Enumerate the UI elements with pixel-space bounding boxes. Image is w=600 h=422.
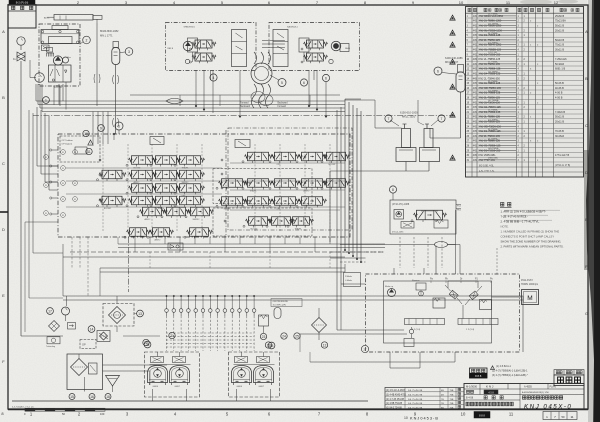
svg-text:75B: 75B — [450, 399, 454, 401]
check valve CV7 — [209, 309, 213, 313]
cylinder feed lines — [405, 162, 407, 172]
svg-text:KNJ 2L-75846-350: KNJ 2L-75846-350 — [479, 76, 501, 80]
svg-text:GM07: GM07 — [259, 386, 265, 388]
swing motor center lines — [447, 281, 449, 288]
gauge label circle 17 — [47, 308, 54, 315]
svg-text:70x11 B: 70x11 B — [555, 44, 564, 47]
return header pipes — [118, 243, 385, 245]
pressure note box — [271, 299, 302, 307]
approval table — [8, 5, 36, 28]
company name glyph row — [466, 402, 469, 406]
svg-text:A 4555/5B04555/18(1) 1/50: A 4555/5B04555/18(1) 1/50 — [522, 391, 550, 394]
svg-text:BOOM2: BOOM2 — [134, 167, 141, 169]
swing crossover relief B — [469, 291, 478, 300]
travel motor cluster 1 box — [145, 352, 200, 397]
scan smudges top edge — [520, 0, 552, 5]
check valve CV9 — [223, 309, 227, 313]
travel cluster labels — [144, 341, 151, 348]
accumulator A2 — [456, 72, 465, 92]
svg-text:PA5 B: PA5 B — [168, 47, 174, 50]
label circle 8 — [389, 186, 396, 193]
left standpipes — [36, 107, 38, 166]
svg-text:5: 5 — [281, 81, 283, 85]
spool valve V25 — [302, 179, 323, 188]
svg-text:D: D — [585, 170, 588, 175]
svg-text:GM06: GM06 — [237, 386, 243, 388]
svg-text:A: A — [2, 29, 5, 34]
svg-text:7707-131: 7707-131 — [488, 52, 498, 54]
svg-text:75x21 BA: 75x21 BA — [555, 20, 566, 23]
svg-text:25: 25 — [295, 334, 299, 338]
svg-text:4511 ASSY: 4511 ASSY — [521, 279, 533, 282]
travel motor cluster 2 box — [229, 352, 280, 397]
svg-text:OP Digtval: OP Digtval — [62, 143, 73, 146]
check valve CV10 — [230, 309, 234, 313]
spool valve V1 — [132, 156, 153, 165]
pilot pump unit 4 gear pump — [183, 41, 193, 51]
spool valve V12 — [132, 196, 153, 205]
bank label circle 6 — [115, 122, 123, 130]
spool valve V34 — [130, 228, 147, 237]
swing input bus — [330, 251, 384, 253]
svg-text:E: E — [2, 293, 5, 298]
svg-text:Turbochag: Turbochag — [46, 345, 55, 348]
swing port blocks — [405, 319, 445, 325]
spool valve V9 — [180, 184, 201, 193]
ellipse connector line — [448, 244, 456, 246]
spool valve V31 — [249, 217, 268, 226]
pilot filter — [42, 45, 50, 51]
svg-text:C: C — [2, 161, 5, 166]
svg-text:CONNECTS E POINT SHCT LAMP CAL: CONNECTS E POINT SHCT LAMP CALLSY — [501, 235, 555, 239]
svg-text:(1) 4-5B 754-88: (1) 4-5B 754-88 — [386, 403, 403, 405]
spool valve V27 — [222, 197, 243, 206]
svg-text:13: 13 — [138, 312, 142, 316]
revision table — [385, 388, 464, 410]
svg-text:(2) 4-7-45 454-88: (2) 4-7-45 454-88 — [386, 399, 405, 401]
breaker cylinder right — [424, 129, 433, 148]
svg-text:MKLL 1520: MKLL 1520 — [402, 115, 416, 119]
svg-text:SHOW THE ZONE NUMBER OF THIS D: SHOW THE ZONE NUMBER OF THIS DRAWING, — [501, 240, 562, 244]
svg-text:19: 19 — [267, 343, 271, 347]
svg-text:75B: 75B — [450, 390, 454, 392]
svg-text:16: 16 — [90, 395, 94, 399]
svg-text:D1-75856-: D1-75856- — [488, 43, 499, 45]
cluster 2 crossover lines — [234, 364, 275, 366]
svg-text:14: 14 — [90, 327, 94, 331]
svg-text:30x11 B: 30x11 B — [555, 49, 564, 52]
svg-text:K N J: K N J — [486, 385, 494, 389]
svg-text:1774-1x17 B: 1774-1x17 B — [555, 154, 570, 157]
svg-text:Dr: Dr — [460, 278, 463, 281]
svg-text:Forward: Forward — [278, 105, 287, 108]
swing unit box — [366, 274, 520, 352]
tank labels — [69, 394, 75, 400]
svg-text:6061-1 B: 6061-1 B — [555, 68, 565, 71]
svg-text:2. PARTS WITH MARK A MEAN OPTI: 2. PARTS WITH MARK A MEAN OPTIONAL PARTS… — [501, 245, 564, 249]
svg-text:12: 12 — [323, 343, 327, 347]
spool valve V32 — [272, 217, 291, 226]
svg-text:6: 6 — [437, 69, 439, 73]
svg-text:A: A — [585, 29, 588, 34]
swing bottom lines — [389, 352, 391, 368]
svg-text:B: B — [585, 76, 588, 81]
hose label circle 5 — [278, 79, 286, 87]
swing crossover relief A — [449, 290, 458, 299]
left drop pipes — [32, 113, 34, 253]
svg-text:2L-75856-: 2L-75856- — [488, 110, 498, 112]
svg-text:SPACRGne: SPACRGne — [184, 26, 196, 29]
spool valve V21 — [327, 152, 346, 161]
hydraulic tank box — [67, 354, 103, 390]
drain collector box — [47, 337, 60, 344]
svg-text:Backward: Backward — [240, 105, 251, 108]
svg-text:9: 9 — [100, 126, 102, 130]
spool valve V23 — [248, 179, 269, 188]
cluster junction dots — [195, 105, 197, 107]
spool valve V11 — [102, 196, 122, 205]
spool valve V4 — [102, 170, 122, 179]
svg-text:1: 1 — [45, 98, 47, 102]
svg-text:Make up: Make up — [385, 286, 394, 288]
return line filter — [312, 318, 327, 333]
pilot pump unit 4 relief stack — [232, 30, 247, 67]
cluster 1 crossover lines — [150, 364, 191, 366]
svg-text:D1-75866-: D1-75866- — [488, 119, 499, 121]
valve group sub-boxes — [213, 169, 312, 204]
pilot pump unit 4 gauge port — [185, 59, 189, 63]
cluster label circle 6b — [322, 74, 329, 81]
svg-text:12: 12 — [554, 0, 559, 5]
check valve CV12 — [245, 309, 249, 313]
spool valve V24 — [275, 179, 296, 188]
op box — [80, 340, 96, 349]
return gauge — [62, 307, 70, 315]
svg-text:6: 6 — [118, 124, 120, 128]
title block grid — [464, 384, 584, 410]
label circle 23 — [260, 333, 266, 339]
svg-text:21-75856-: 21-75856- — [488, 139, 498, 141]
bus-to-bank connectors — [92, 112, 94, 145]
drain line — [20, 61, 22, 336]
tank feed lines — [66, 332, 68, 353]
oil cooler — [109, 307, 126, 324]
pilot manifold 8 box — [390, 200, 456, 234]
svg-text:8N20-8N0-1082: 8N20-8N0-1082 — [100, 29, 119, 33]
svg-text:11: 11 — [87, 150, 91, 154]
bank port dots — [99, 159, 101, 161]
scan edge shadow — [586, 0, 600, 422]
svg-text:KNJ 2L-75B56-125: KNJ 2L-75B56-125 — [479, 57, 501, 61]
accumulator label circle 3 — [125, 48, 133, 56]
svg-text:54L 75-45L 8B: 54L 75-45L 8B — [408, 407, 423, 409]
pump outlet pipes — [36, 100, 345, 102]
spool valve V19 — [275, 152, 296, 161]
bypass check diamond — [49, 321, 60, 332]
svg-text:31-75856-: 31-75856- — [488, 33, 498, 35]
spool valve V22 — [222, 179, 243, 188]
svg-text:10: 10 — [461, 412, 466, 417]
svg-text:8/2-1081 4-5L: 8/2-1081 4-5L — [479, 165, 495, 168]
svg-text:75B: 75B — [450, 407, 454, 409]
svg-text:BOOM2: BOOM2 — [104, 208, 111, 210]
gauge label circle 1 — [43, 97, 50, 104]
svg-text:2: 2 — [86, 38, 88, 42]
svg-text:(2) 4-(7)-75856(4)-1 (L&M-12B): (2) 4-(7)-75856(4)-1 (L&M-12B)-1 — [492, 370, 528, 373]
pilot pump unit 5 control valves — [307, 40, 324, 48]
svg-text:10: 10 — [84, 132, 88, 136]
swing inner frame — [384, 281, 492, 343]
engine block — [41, 30, 79, 44]
pressure gauge G1 — [17, 37, 25, 45]
svg-text:18: 18 — [106, 395, 110, 399]
svg-text:SERVIC: SERVIC — [224, 208, 232, 210]
svg-text:15: 15 — [70, 395, 74, 399]
svg-text:8 8 8: 8 8 8 — [479, 414, 485, 418]
svg-text:E: E — [585, 217, 588, 222]
check valve CV8 — [216, 309, 220, 313]
swing check valve — [409, 329, 413, 333]
spool valve V33 — [293, 217, 310, 226]
svg-text:24: 24 — [282, 334, 286, 338]
travel motor M3 — [232, 366, 252, 383]
cluster label circle 6c — [300, 79, 307, 86]
svg-text:NOTE.: NOTE. — [501, 225, 509, 229]
cluster label circle 4 — [210, 74, 217, 81]
svg-text:54L 75-45L 8B: 54L 75-45L 8B — [408, 395, 423, 397]
drawing number stamp — [9, 0, 35, 5]
cluster 2 counterbalance valves — [235, 357, 248, 363]
tank comb symbol — [46, 53, 48, 57]
svg-text:4-06 B: 4-06 B — [555, 92, 563, 95]
svg-text:4710-4-1085: 4710-4-1085 — [392, 232, 404, 234]
spool valve V8 — [156, 184, 177, 193]
svg-text:54L 75-45L 8B: 54L 75-45L 8B — [408, 390, 423, 392]
stamp side notes — [491, 366, 495, 370]
suction strainer — [71, 359, 88, 376]
pilot manifold sub blocks — [401, 222, 414, 229]
svg-text:11: 11 — [509, 412, 514, 417]
svg-text:SERVIC: SERVIC — [193, 219, 201, 221]
riser extension to swing — [340, 107, 342, 284]
svg-text:Max: Max — [67, 57, 71, 59]
pilot supply header — [100, 267, 345, 269]
svg-text:(4710-471)-1088: (4710-471)-1088 — [392, 204, 410, 206]
svg-text:M-1/5000: M-1/5000 — [466, 385, 478, 389]
check valve CV1 — [165, 309, 169, 313]
pilot pump unit 5 box — [269, 23, 360, 71]
svg-text:1. NUMBER CALLED IN FRAME (2): 1. NUMBER CALLED IN FRAME (2) SHOW THE — [501, 230, 560, 234]
svg-text:OP Trabber: OP Trabber — [62, 139, 74, 142]
pilot pump unit 5 gauge port — [329, 59, 333, 63]
accumulator label circle 6 — [434, 67, 442, 75]
svg-text:(4) 4-5-11 L4-1847: (4) 4-5-11 L4-1847 — [386, 390, 406, 392]
bank left ports — [52, 149, 58, 151]
svg-text:1 2 (3 4): 1 2 (3 4) — [466, 329, 474, 331]
spool valve V26 — [327, 179, 346, 188]
svg-text:3: 3 — [128, 50, 130, 54]
svg-text:11: 11 — [570, 415, 573, 419]
bank warning triangle — [88, 140, 93, 145]
svg-text:26: 26 — [146, 343, 150, 347]
document class cell - bifuzu — [554, 375, 584, 386]
pilot pump unit 5 relief stack — [273, 30, 288, 67]
svg-text:L.Mode: L.Mode — [345, 280, 353, 282]
svg-text:GD-75856-: GD-75856- — [488, 148, 499, 150]
oil cooler box — [103, 304, 134, 327]
svg-text:40-66 B: 40-66 B — [555, 87, 564, 90]
spool valve V15 — [143, 207, 162, 216]
bank section divider — [225, 130, 227, 237]
spool valve V7 — [180, 170, 201, 179]
svg-text:100: 100 — [100, 412, 105, 416]
spool valve V13 — [156, 196, 177, 205]
swing drain run — [340, 284, 342, 330]
svg-text:(3) 4-4B 4545-4705: (3) 4-4B 4545-4705 — [386, 395, 407, 397]
spool valve V5 — [132, 170, 153, 179]
return filter — [97, 331, 110, 342]
unit drain comb — [54, 85, 56, 88]
swing gauge circle — [361, 345, 368, 352]
svg-text:BOOM2: BOOM2 — [329, 164, 336, 166]
document class cells — [554, 370, 584, 375]
svg-text:ARM 2: ARM 2 — [145, 218, 151, 221]
svg-text:10: 10 — [459, 0, 464, 5]
svg-text:31-75856-: 31-75856- — [488, 129, 498, 131]
svg-text:A 4555: A 4555 — [524, 386, 532, 389]
svg-text:8 8 8: 8 8 8 — [475, 374, 482, 378]
travel motor M4 — [254, 366, 274, 383]
svg-text:21: 21 — [170, 334, 174, 338]
svg-text:50x11 B: 50x11 B — [555, 116, 564, 119]
bank port labels — [83, 130, 89, 136]
svg-text:20x11 B: 20x11 B — [555, 29, 564, 32]
riser bundle to lower circuits — [344, 99, 346, 250]
svg-text:PLAN: PLAN — [550, 386, 557, 389]
spool valve V14 — [180, 196, 201, 205]
svg-text:Reverse: Reverse — [412, 280, 420, 282]
riser label circle 9 — [98, 125, 105, 132]
spool valve V28 — [248, 197, 269, 206]
drain connector lines — [123, 335, 160, 337]
svg-text:4-5L 7757 7-5L: 4-5L 7757 7-5L — [479, 171, 495, 173]
svg-text:5A2A: 5A2A — [345, 47, 351, 50]
svg-text:SACR42Ln: SACR42Ln — [287, 26, 299, 29]
grease cylinder — [54, 15, 93, 21]
bank inlet plate — [60, 136, 100, 162]
svg-text:50-06 B: 50-06 B — [555, 82, 564, 85]
bank internal rails — [66, 167, 222, 169]
svg-text:75B: 75B — [450, 403, 454, 405]
svg-text:25x60 B: 25x60 B — [555, 15, 565, 18]
spool valve V30 — [302, 197, 323, 206]
small accumulator 22 — [274, 308, 281, 319]
svg-text:(0) 84-5 754-88: (0) 84-5 754-88 — [386, 407, 403, 409]
svg-text:7: 7 — [388, 117, 390, 121]
cluster port feed lines — [262, 40, 285, 42]
svg-text:2905-GBL: 2905-GBL — [488, 158, 499, 160]
manifold label circles — [169, 332, 175, 338]
svg-text:ARM 2: ARM 2 — [155, 238, 161, 241]
tank outlet pipes — [103, 364, 168, 366]
drain funnel — [106, 376, 120, 387]
bank port circle labels — [61, 150, 66, 155]
pilot manifold valve — [417, 210, 443, 220]
svg-text:75B: 75B — [450, 395, 454, 397]
check valve CV11 — [238, 309, 242, 313]
svg-text:6400-640-1086: 6400-640-1086 — [445, 56, 463, 60]
svg-text:AVJC: AVJC — [44, 17, 50, 20]
svg-text:54L 75-45L 8B: 54L 75-45L 8B — [408, 403, 423, 405]
svg-text:OM PRESSURE: OM PRESSURE — [273, 301, 289, 303]
svg-text:30-06x6: 30-06x6 — [555, 135, 565, 138]
spool valve V3 — [180, 156, 201, 165]
upper distribution stubs — [179, 95, 181, 106]
svg-text:G1-75B46-: G1-75B46- — [488, 23, 499, 25]
svg-text:G: G — [585, 311, 588, 316]
parts list option triangles — [450, 15, 455, 20]
spool valve V18 — [248, 152, 269, 161]
svg-text:50x10 B: 50x10 B — [555, 39, 565, 42]
spool valve V2 — [156, 156, 177, 165]
swing drain relief — [404, 339, 414, 347]
svg-text:6150-610-1000: 6150-610-1000 — [400, 111, 418, 115]
svg-text:54L 75-45L 8B: 54L 75-45L 8B — [408, 399, 423, 401]
bank outlet drops — [134, 237, 136, 252]
hose union fitting — [166, 98, 183, 103]
svg-text:7-25x11x6: 7-25x11x6 — [555, 58, 567, 61]
mode selector box — [344, 273, 361, 287]
spool valve V17 — [191, 207, 210, 216]
swing relief valve B — [480, 300, 492, 310]
cooler feed lines — [116, 296, 118, 304]
svg-text:OP: OP — [82, 343, 86, 347]
svg-text:50-90x6: 50-90x6 — [555, 63, 565, 66]
spool valve V16 — [167, 207, 186, 216]
svg-text:B 4-58: B 4-58 — [466, 397, 474, 400]
spool valve V10 — [132, 184, 153, 193]
svg-text:10: 10 — [404, 416, 408, 420]
cluster5 pump outlet box — [340, 44, 349, 52]
svg-text:GL-75B5B-: GL-75B5B- — [488, 100, 499, 102]
svg-text:50x11 B: 50x11 B — [555, 25, 564, 28]
control valve bank box — [58, 134, 350, 237]
svg-text:GM07: GM07 — [175, 386, 181, 388]
svg-text:B: B — [2, 95, 5, 100]
pilot pump unit 5 gear pump — [331, 41, 341, 51]
engine-pump unit box — [39, 24, 80, 86]
breaker cylinder left — [402, 129, 411, 148]
notes heading — [501, 203, 504, 207]
check valve CV13 — [252, 309, 256, 313]
reference stamp boxes — [470, 368, 488, 378]
svg-text:8: 8 — [392, 188, 394, 192]
filter labels — [281, 333, 287, 339]
pilot accumulator — [259, 315, 269, 326]
label circle 14 — [88, 326, 95, 333]
svg-text:MN.L 1771: MN.L 1771 — [100, 34, 113, 38]
check valve CV6 — [201, 309, 205, 313]
svg-text:(3) 4-(7)-75856(1)-1 (L&M+12B): (3) 4-(7)-75856(1)-1 (L&M+12B)-* — [492, 374, 528, 377]
bottom tank rail — [12, 400, 368, 402]
hose coils — [251, 63, 272, 84]
svg-text:15.0 MPa (4F): 15.0 MPa (4F) — [273, 304, 287, 306]
spool valve V20 — [302, 152, 323, 161]
svg-text:KNJ 045X-0: KNJ 045X-0 — [524, 404, 572, 411]
machine boundary dashdot — [33, 115, 455, 117]
pilot manifold pump — [394, 210, 404, 220]
cluster risers — [195, 71, 197, 107]
